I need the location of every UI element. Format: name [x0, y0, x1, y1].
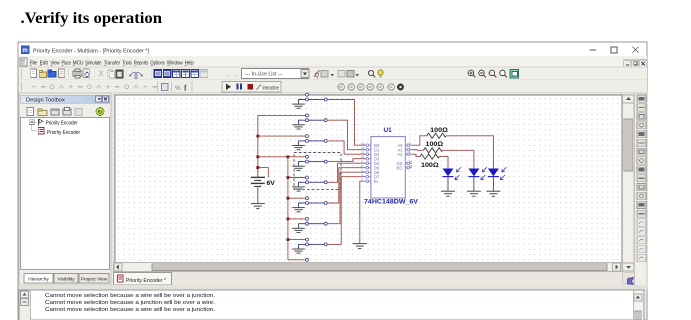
svg-text:Simulate: Simulate: [85, 60, 102, 66]
svg-text:Visibility: Visibility: [57, 276, 75, 282]
svg-text:Hierarchy: Hierarchy: [28, 276, 49, 282]
svg-text:EO: EO: [397, 165, 403, 170]
svg-text:Priority Encoder: Priority Encoder: [47, 130, 80, 136]
svg-text:EI: EI: [374, 179, 378, 184]
svg-text:100Ω: 100Ω: [426, 141, 444, 148]
svg-text:100Ω: 100Ω: [421, 162, 439, 169]
svg-text:14: 14: [409, 159, 413, 163]
svg-text:U1: U1: [384, 127, 393, 134]
svg-text:13: 13: [361, 155, 365, 159]
svg-text:Cannot move selection because: Cannot move selection because a junction…: [45, 300, 215, 306]
svg-text:6V: 6V: [267, 180, 276, 187]
svg-text:100Ω: 100Ω: [430, 127, 448, 134]
svg-text:10: 10: [361, 141, 365, 145]
svg-text:12: 12: [361, 150, 365, 154]
svg-text:Project View: Project View: [81, 276, 108, 282]
svg-text:Q: Q: [315, 73, 320, 79]
svg-text:f: f: [184, 84, 187, 93]
svg-text:Priority Encoder - Multisim -: Priority Encoder - Multisim - [Priority …: [33, 49, 149, 55]
svg-text:Design Toolbox: Design Toolbox: [26, 98, 65, 104]
svg-text:11: 11: [361, 146, 364, 150]
svg-text:Cannot move selection because: Cannot move selection because a wire wil…: [45, 293, 215, 299]
svg-text:Priority Encoder *: Priority Encoder *: [126, 278, 166, 284]
svg-text:←: ←: [226, 73, 232, 79]
svg-text:Cannot move selection because: Cannot move selection because a wire wil…: [45, 307, 215, 313]
svg-text:→: →: [234, 73, 240, 79]
svg-text:Transfer: Transfer: [104, 60, 121, 66]
svg-text:A2: A2: [397, 152, 403, 157]
svg-text:Interactive: Interactive: [263, 85, 280, 91]
svg-text:Priority Encoder: Priority Encoder: [46, 121, 78, 127]
svg-text:.Verify its operation: .Verify its operation: [21, 10, 163, 27]
svg-text:--- In-Use List ---: --- In-Use List ---: [245, 72, 283, 78]
svg-text:%: %: [175, 85, 181, 92]
svg-text:↻: ↻: [98, 109, 103, 116]
svg-text:15: 15: [409, 164, 413, 168]
svg-text:74HC148DW_6V: 74HC148DW_6V: [364, 199, 419, 206]
svg-text:m: m: [22, 48, 27, 54]
svg-text:□: □: [490, 71, 493, 76]
